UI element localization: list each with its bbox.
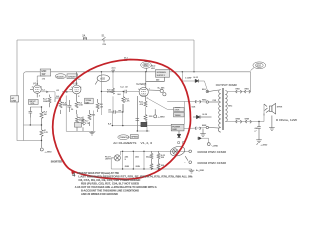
svg-text:B-12: B-12 [194,77,199,79]
red highlight circle annotation [53,60,191,180]
label box R470K stack a [174,108,185,112]
wire top AC rail [17,39,194,41]
svg-text:4: 4 [72,173,75,179]
svg-text:GRN: GRN [136,166,141,168]
capacitor C2 tone [29,107,33,118]
svg-text:B-8: B-8 [118,94,121,96]
svg-text:2: 2 [32,87,33,89]
svg-text:R25 (P) R25, C23, R27, C24, 5L: R25 (P) R25, C23, R27, C24, 5L7 NOT USED [81,181,139,185]
wire signal path stage1 to stage2 with arrow [41,91,72,99]
transformer T1 primary terminals [206,90,219,129]
svg-text:3: 3 [39,95,40,97]
junction dot rail at x194 [193,71,194,72]
label oval TREMOLO tag [118,135,129,140]
red note leader arrow [71,171,75,174]
diode CR2 [193,115,212,119]
wire heater drop V3 [143,151,145,169]
pilot lamp DS1 [111,155,120,161]
svg-text:100: 100 [161,157,165,159]
svg-text:SPEED: SPEED [131,137,139,139]
wire secondary to speaker with connectors [227,104,264,122]
label oval BLACK TWD [55,74,66,79]
svg-text:GRN: GRN [236,118,241,120]
svg-text:AND 20 WIRES FOR GROUND: AND 20 WIRES FOR GROUND [81,192,118,196]
label box TONE NET [85,98,94,104]
svg-text:2: 2 [147,98,148,100]
resistor R5 cathode stage2 [75,98,78,114]
terminal lamp taps [177,141,184,143]
svg-text:V-1A: V-1A [33,83,38,86]
junction dots secondary [207,91,260,122]
capacitor C4 coupling to output tube [125,90,127,93]
svg-text:170: 170 [42,78,45,80]
svg-text:1M: 1M [100,106,103,108]
svg-text:1.5K: 1.5K [79,105,84,107]
tube V3 6AQ5 output [137,72,164,131]
svg-text:S1: S1 [102,35,106,38]
junction dots cathode [137,130,148,131]
svg-text:460: 460 [144,64,149,67]
svg-text:~: ~ [184,162,186,164]
svg-text:TREMOLO: TREMOLO [119,137,130,139]
svg-text:B+_GND: B+_GND [196,170,205,172]
terminal heater feed b [185,156,191,163]
connector pair lower lead [195,127,200,130]
connector pair bias lead [195,100,200,103]
svg-text:RED: RED [202,100,207,102]
svg-text:TREM: TREM [175,115,181,117]
svg-text:PRI: PRI [213,100,217,102]
svg-text:.02: .02 [56,90,60,92]
junction dots tremolo bus [112,111,124,126]
svg-text:1M: 1M [44,114,47,116]
tube V1 12AX7 first stage [30,80,41,98]
svg-text:LAST REMOVED RESISTORS R77, R7: LAST REMOVED RESISTORS R77, R78, R7, R73… [78,175,193,179]
terminal bias test point [154,109,157,118]
svg-text:BLU: BLU [202,89,206,91]
svg-text:6: 6 [80,87,81,89]
resistor R11 470 cathode output [144,101,147,107]
label box CHOKE gray on rail [156,70,170,78]
svg-text:ADJUST BIAS POT R(new) AT 750: ADJUST BIAS POT R(new) AT 750 [77,171,119,175]
svg-text:9: 9 [125,159,127,161]
transformer T1 primary winding [218,90,220,133]
svg-text:RED: RED [245,88,250,90]
terminal heater feed a [189,150,192,153]
svg-text:B-19: B-19 [203,114,208,116]
wire NFB diagonal [148,98,194,109]
ground under transformer [200,129,206,137]
svg-text:B-ACCOUNT THE 700/1000W LINE C: B-ACCOUNT THE 700/1000W LINE CONDITIONS [81,189,139,193]
svg-text:C 1/2W: C 1/2W [185,77,192,79]
svg-text:NET: NET [85,103,90,105]
svg-text:GRN: GRN [245,118,250,120]
ground under jack [269,116,275,131]
resistor R2 1M grid [40,107,43,125]
label box GROUND SW [40,69,51,76]
speaker LS1 [269,103,275,114]
node plate supply oval 460 [141,62,152,72]
wire filament bottom [111,158,191,169]
svg-text:+_GND: +_GND [45,151,52,153]
svg-text:100K: 100K [43,101,48,103]
wire bottom-left AC return [17,140,42,142]
wire bus under stage2 [66,96,95,132]
label box POWER GND gray [171,124,184,131]
ground filament return [189,169,195,173]
resistor R12 1M tail [96,99,99,112]
label box SPEED tag [130,135,138,139]
label box CHASSIS [67,74,78,79]
connector pair B+ lead b [245,90,250,93]
svg-text:BLACK: BLACK [57,75,65,78]
capacitor C8 cathode bypass [136,119,140,121]
svg-text:7: 7 [149,88,150,90]
svg-text:.05: .05 [108,109,112,111]
svg-text:SUPPLY: SUPPLY [157,75,166,77]
svg-text:OUTPUT XFMR: OUTPUT XFMR [216,84,237,87]
resistor R8 470K [112,88,115,94]
svg-text:502: 502 [257,63,262,67]
svg-text:3&4: 3&4 [146,157,150,159]
wire heater drop V1 [122,151,124,169]
label box AC LINE on left vertical [11,96,19,102]
transformer T1 secondary winding [225,91,227,122]
svg-text:220: 220 [149,116,153,118]
junction dots input network [30,106,43,141]
pilot lamp assembly DS2 with bezel [169,145,186,158]
connector pair B+ lead a [236,90,241,93]
svg-text:56K: 56K [92,114,96,116]
svg-text:1.5K: 1.5K [125,101,130,103]
wire main B+ rail [24,72,251,75]
svg-text:470K: 470K [107,92,112,94]
svg-text:1: 1 [41,87,42,89]
svg-text:AC FILAMENTS: AC FILAMENTS [113,141,136,145]
svg-text:SCREEN: SCREEN [157,72,167,74]
svg-text:SHORTED: SHORTED [51,161,63,163]
capacitor C9 electrolytic dark [141,122,147,126]
label oval A02 feedback tap [95,75,109,85]
capacitor C3 bypass [67,100,71,112]
svg-text:V-1B: V-1B [72,84,77,86]
resistor R21 humdinger b [157,151,160,169]
wire phase splitter drop [101,72,139,115]
svg-text:4&5: 4&5 [135,157,139,159]
label box BIAS small gray [75,123,82,128]
tube V1 plate feed wire [37,76,45,80]
resistor R7b tone divider [82,117,85,132]
svg-text:LIGHT: LIGHT [105,159,112,161]
svg-text:1.5: 1.5 [78,79,81,81]
svg-text:25: 25 [71,109,74,111]
svg-text:GRN: GRN [125,166,130,168]
switch SW1 on AC rail [102,37,106,42]
svg-text:ON: ON [103,44,107,46]
diode CR3 vertical [177,131,181,138]
junction dots filament [122,151,159,170]
diode CR4 bias rectifier [198,137,201,140]
ground preamp bus [89,131,94,135]
svg-text:5: 5 [138,89,139,91]
resistor R20 humdinger a [150,151,153,169]
wire filament top [120,151,189,155]
svg-text:2.7K: 2.7K [85,123,90,125]
svg-text:A AS OUT OF VOLTAGES ARE +/-2: A AS OUT OF VOLTAGES ARE +/-20% RELATIVE… [75,185,157,189]
svg-text:SPKR: SPKR [277,107,283,109]
wire tremolo bus [112,104,172,126]
wire right drop from AC rail [193,40,195,72]
resistor R9 1.5K [122,97,125,103]
svg-text:SEC: SEC [228,105,233,107]
resistor R7 divider b [88,110,91,126]
fuse F1 on AC rail [83,37,86,40]
svg-text:B-9: B-9 [108,124,112,126]
transformer T1 core [222,88,223,130]
wire B+ drop to transformer [250,72,252,92]
ground under C7 [256,140,262,145]
svg-text:50K: 50K [192,107,196,109]
label box INPUT VOL [29,99,39,104]
svg-text:2.7K: 2.7K [44,132,49,134]
wire output cathode left [137,108,149,131]
resistor R3 2.7K cathode [40,125,43,141]
svg-text:410: 410 [112,70,116,72]
svg-text:100K: 100K [63,105,68,107]
svg-text:470: 470 [140,104,144,106]
svg-text:BRN: BRN [202,125,207,127]
junction dots mid [101,71,165,92]
svg-text:GND: GND [41,71,46,73]
svg-text:C-4: C-4 [120,86,124,88]
svg-text:452: 452 [151,68,155,70]
svg-text:B+ 465: B+ 465 [158,88,165,90]
svg-text:+_GND: +_GND [261,145,268,147]
connector pair speaker lead a [236,120,241,123]
connector pair plates P1 [148,89,166,95]
svg-text:B-5: B-5 [56,96,59,98]
diode CR1 [195,79,198,82]
svg-text:~_GND: ~_GND [211,145,218,147]
svg-text:+7: +7 [254,130,257,132]
wire left AC vertical [16,40,18,141]
wire bias to center tap with connectors [193,101,206,104]
junction dot screen tap [182,71,183,72]
svg-text:FROM PWR XFMR: FROM PWR XFMR [198,161,227,165]
connector pair speaker lead b [246,120,251,123]
wire bias to test point [201,138,208,142]
tube V2 12AX7 second stage [70,72,82,98]
wire chassis left vertical [23,74,25,140]
capacitor C5 horizontal [108,110,123,114]
svg-text:7: 7 [71,87,72,89]
capacitor C6 small box [175,107,180,111]
resistor R4 plate stage2 [55,98,62,114]
wire screen tap drop [182,72,207,90]
svg-text:8 Ohms, 12W: 8 Ohms, 12W [276,118,297,122]
svg-text:GND: GND [172,129,177,131]
capacitor C7 output filter [257,122,261,140]
svg-text:.02: .02 [125,86,129,88]
terminal AC ground jack [40,141,43,152]
svg-text:440: 440 [156,79,159,81]
label box R470K stack b [174,113,185,117]
speaker jack J2 [264,104,269,116]
svg-text:2A: 2A [82,34,85,37]
wire heater drop V2 [132,151,134,169]
svg-text:8: 8 [78,96,79,98]
terminal C GND [207,143,210,146]
svg-text:FROM PWR XFMR: FROM PWR XFMR [198,150,227,154]
svg-text:V-2 6AQ5: V-2 6AQ5 [136,83,147,86]
wire volume node [24,107,42,125]
svg-text:V1, 2, 3: V1, 2, 3 [141,141,153,145]
resistor R3a plate stage1 [48,95,51,108]
svg-text:+_GND: +_GND [158,117,165,119]
svg-text:C-1: C-1 [42,89,46,91]
svg-text:LINE: LINE [11,100,16,102]
svg-text:470K: 470K [175,110,180,112]
svg-text:CHASS: CHASS [68,75,76,78]
svg-text:RED: RED [236,88,241,90]
resistor R6 divider a [76,114,79,131]
resistor R13 [144,115,147,122]
wire lower bias lead [184,127,206,130]
node B+ label oval 502 [251,62,266,71]
wire B+ to primary top with connectors [227,91,251,93]
svg-text:A02: A02 [100,76,105,80]
wire bias feed vertical [184,102,186,125]
